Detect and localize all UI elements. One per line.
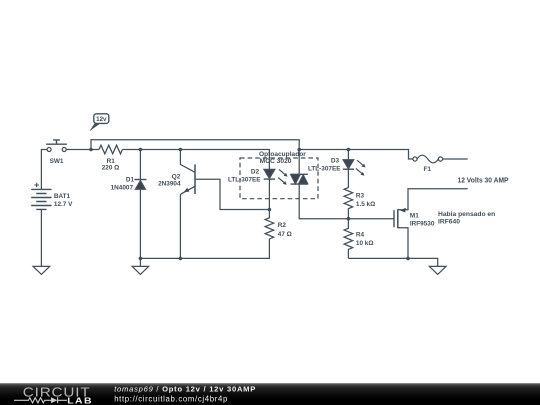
svg-text:12v: 12v <box>96 116 107 123</box>
svg-text:MCC 3020: MCC 3020 <box>260 158 292 165</box>
svg-text:R4: R4 <box>356 232 365 239</box>
svg-text:R2: R2 <box>278 222 287 229</box>
svg-text:LAB: LAB <box>67 396 93 405</box>
svg-text:10 kΩ: 10 kΩ <box>356 240 374 247</box>
svg-text:220 Ω: 220 Ω <box>102 165 120 172</box>
svg-text:1N4007: 1N4007 <box>111 184 134 191</box>
svg-text:tomasp69 / Opto 12v / 12v 30AM: tomasp69 / Opto 12v / 12v 30AMP <box>114 384 256 393</box>
svg-text:1.5 kΩ: 1.5 kΩ <box>356 201 375 208</box>
svg-text:LTL-307EE: LTL-307EE <box>308 166 341 173</box>
svg-text:http://circuitlab.com/cj4br4p: http://circuitlab.com/cj4br4p <box>114 394 228 403</box>
svg-text:47 Ω: 47 Ω <box>278 231 292 238</box>
svg-text:D2: D2 <box>251 168 260 175</box>
svg-text:LTL-307EE: LTL-307EE <box>228 176 261 183</box>
svg-text:D3: D3 <box>331 157 340 164</box>
svg-text:IRF640: IRF640 <box>438 219 460 226</box>
svg-text:12.7 V: 12.7 V <box>54 201 73 208</box>
svg-text:IRF9530: IRF9530 <box>410 220 435 227</box>
svg-text:12 Volts 30 AMP: 12 Volts 30 AMP <box>458 176 509 185</box>
svg-text:Q2: Q2 <box>172 173 181 180</box>
svg-text:Habia pensado en: Habia pensado en <box>438 211 495 218</box>
svg-text:SW1: SW1 <box>50 158 64 165</box>
svg-text:Optoacuplador: Optoacuplador <box>259 151 306 158</box>
svg-text:BAT1: BAT1 <box>54 193 71 200</box>
svg-text:D1: D1 <box>126 177 135 184</box>
svg-text:M1: M1 <box>410 213 419 220</box>
svg-text:F1: F1 <box>423 166 431 173</box>
svg-text:2N3904: 2N3904 <box>158 180 181 187</box>
svg-text:R3: R3 <box>356 192 365 199</box>
